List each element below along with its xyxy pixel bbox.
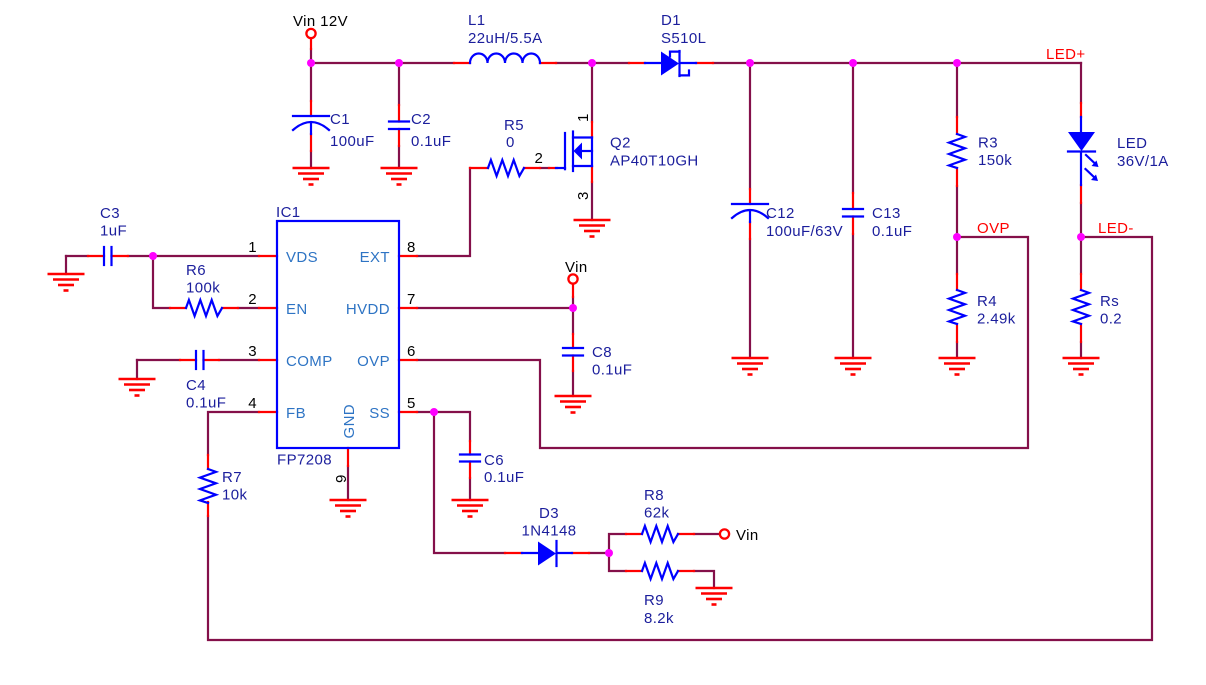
wire LED- node to Rs xyxy=(1080,237,1082,274)
svg-text:1N4148: 1N4148 xyxy=(522,523,577,540)
svg-text:2: 2 xyxy=(535,150,544,167)
pin stub R4 top xyxy=(956,274,958,290)
capacitor C3 xyxy=(104,247,112,265)
capacitor C6 xyxy=(460,455,480,462)
junction R3 rail xyxy=(953,59,961,67)
svg-text:8: 8 xyxy=(407,239,416,256)
svg-text:COMP: COMP xyxy=(286,353,333,370)
svg-text:FP7208: FP7208 xyxy=(277,452,332,469)
wire C2 top xyxy=(398,63,400,105)
LED D2 xyxy=(1068,117,1099,185)
wire Vin12V stem xyxy=(310,49,312,63)
pin stub C13 top xyxy=(852,193,854,209)
svg-text:1: 1 xyxy=(575,113,592,122)
ground C1 xyxy=(293,168,330,185)
pin stub R9 left xyxy=(626,570,642,572)
pin stub IC1 pin 1 xyxy=(259,255,277,257)
wire C12 top xyxy=(749,63,751,189)
wire C1 top xyxy=(310,63,312,101)
wire top rail segment A xyxy=(311,62,454,64)
svg-text:OVP: OVP xyxy=(357,353,390,370)
wire R3 to OVP node xyxy=(956,186,958,237)
wire OVP node to R4 xyxy=(956,237,958,274)
svg-text:R6: R6 xyxy=(186,262,206,279)
svg-text:Vin 12V: Vin 12V xyxy=(293,13,348,30)
wire C8 bottom to ground xyxy=(572,371,574,396)
pin stub C13 bottom xyxy=(852,217,854,235)
wire R8 to Vin terminal xyxy=(694,533,720,535)
ground C8 xyxy=(555,396,592,413)
capacitor C13 xyxy=(843,209,863,217)
pin stub D3 anode xyxy=(505,552,522,554)
resistor R4 xyxy=(949,290,965,324)
svg-text:C12: C12 xyxy=(766,205,795,222)
junction C12 rail xyxy=(746,59,754,67)
wire D3 cathode to node xyxy=(589,552,609,554)
pin stub IC1 pin 7 xyxy=(399,307,417,309)
svg-text:R8: R8 xyxy=(644,487,664,504)
svg-text:C4: C4 xyxy=(186,377,206,394)
pin stub IC1 pin 4 xyxy=(259,411,277,413)
svg-text:36V/1A: 36V/1A xyxy=(1117,153,1169,170)
wire ground to C3 xyxy=(66,255,88,257)
svg-text:Rs: Rs xyxy=(1100,293,1119,310)
svg-text:Vin: Vin xyxy=(736,527,759,544)
IC U1 FP7208 box xyxy=(277,221,399,448)
terminal Vin 12V xyxy=(306,29,315,38)
svg-text:C2: C2 xyxy=(411,111,431,128)
pin stub R6 left xyxy=(170,307,186,309)
ground C6 xyxy=(452,500,489,517)
wire GND pin 9 to ground xyxy=(347,466,349,500)
pin stub IC1 pin 5 xyxy=(399,411,417,413)
pin stub LED anode xyxy=(1080,103,1082,117)
svg-text:150k: 150k xyxy=(978,152,1012,169)
ground Rs xyxy=(1063,358,1100,375)
terminal Vin (HVDD) xyxy=(568,274,577,283)
wire ground to C4 xyxy=(137,359,180,361)
svg-text:D1: D1 xyxy=(661,12,681,29)
wire OVP net to pin 6 xyxy=(417,237,1028,448)
pin stub C3 left xyxy=(88,255,104,257)
wire node up to R8 xyxy=(609,534,626,553)
wire C4 ground stem xyxy=(136,360,138,379)
wire EXT pin 8 to R5 xyxy=(417,168,470,256)
wire C2 bottom to ground xyxy=(398,146,400,168)
pin stub D3 cathode xyxy=(572,552,589,554)
junction C2 rail xyxy=(395,59,403,67)
resistor R3 xyxy=(949,134,965,168)
pin stub Rs top xyxy=(1080,274,1082,290)
pin stub R6 right xyxy=(222,307,238,309)
pin stub C2 bottom xyxy=(398,129,400,146)
svg-text:HVDD: HVDD xyxy=(346,301,390,318)
pin stub R3 bottom xyxy=(956,168,958,186)
svg-text:SS: SS xyxy=(369,405,390,422)
wire SS node down to D3 xyxy=(434,412,505,553)
wire R6 to EN pin 2 xyxy=(238,307,259,309)
pin stub R7 bottom xyxy=(207,502,209,516)
svg-text:OVP: OVP xyxy=(977,220,1010,237)
wire Vin node vertical xyxy=(572,297,574,334)
resistor Rs xyxy=(1073,290,1089,324)
svg-text:LED: LED xyxy=(1117,135,1147,152)
pin stub C2 top xyxy=(398,105,400,122)
pin stub C12 top xyxy=(749,189,751,204)
pin stub C1 top xyxy=(310,101,312,116)
resistor R6 xyxy=(186,300,222,316)
svg-text:R3: R3 xyxy=(978,135,998,152)
svg-text:S510L: S510L xyxy=(661,30,706,47)
svg-text:9: 9 xyxy=(333,474,350,483)
resistor R7 xyxy=(200,469,216,503)
pin stub Vin mid terminal xyxy=(572,284,574,297)
wire HVDD pin 7 to Vin xyxy=(417,307,573,309)
pin stub R9 right xyxy=(678,570,694,572)
pin stub R7 top xyxy=(207,455,209,469)
svg-text:EN: EN xyxy=(286,301,308,318)
junction LED- node xyxy=(1077,233,1085,241)
wire Rs bottom to ground xyxy=(1080,342,1082,358)
svg-text:7: 7 xyxy=(407,291,416,308)
diode D1 (schottky) xyxy=(645,51,696,76)
wire R5 to Q2 gate xyxy=(540,167,549,169)
svg-text:R9: R9 xyxy=(644,592,664,609)
pin stub Rs bottom xyxy=(1080,324,1082,342)
wire C6 bottom to ground xyxy=(469,478,471,500)
svg-text:2.49k: 2.49k xyxy=(977,311,1016,328)
junction C13 rail xyxy=(849,59,857,67)
ground R4 xyxy=(939,358,976,375)
pin stub L1 left xyxy=(454,62,470,64)
svg-text:22uH/5.5A: 22uH/5.5A xyxy=(468,30,542,47)
pin stub IC1 pin 8 xyxy=(399,255,417,257)
svg-text:1uF: 1uF xyxy=(100,223,127,240)
svg-text:R4: R4 xyxy=(977,293,997,310)
ground IC1 pin 9 xyxy=(330,500,367,517)
svg-text:Q2: Q2 xyxy=(610,135,631,152)
svg-text:AP40T10GH: AP40T10GH xyxy=(610,153,699,170)
wire Q2 drain xyxy=(591,63,593,122)
ground C2 xyxy=(381,168,418,185)
pin stub R8 left xyxy=(626,533,642,535)
wire R7 top to FB pin 4 xyxy=(208,412,259,455)
svg-text:C13: C13 xyxy=(872,205,901,222)
pin stub L1 right xyxy=(540,62,556,64)
capacitor C8 xyxy=(563,348,583,356)
svg-text:62k: 62k xyxy=(644,505,669,522)
wire C13 top xyxy=(852,63,854,193)
svg-text:0: 0 xyxy=(506,134,515,151)
capacitor C1 xyxy=(293,116,329,134)
svg-text:10k: 10k xyxy=(222,487,247,504)
pin stub R8 right xyxy=(678,533,694,535)
diode D3 xyxy=(522,541,572,566)
wire R9 to ground xyxy=(694,571,714,588)
pin stub IC1 pin 3 xyxy=(259,359,277,361)
pin stub C4 left xyxy=(180,359,196,361)
ground C13 xyxy=(835,358,872,375)
svg-text:LED-: LED- xyxy=(1098,220,1134,237)
svg-text:0.1uF: 0.1uF xyxy=(872,223,912,240)
junction Vin rail xyxy=(307,59,315,67)
pin stub C6 top xyxy=(469,441,471,455)
pin stub C1 bottom xyxy=(310,134,312,151)
svg-text:C8: C8 xyxy=(592,344,612,361)
svg-text:C6: C6 xyxy=(484,452,504,469)
svg-text:LED+: LED+ xyxy=(1046,46,1086,63)
svg-text:C3: C3 xyxy=(100,205,120,222)
svg-text:D3: D3 xyxy=(539,505,559,522)
svg-text:2: 2 xyxy=(248,291,257,308)
svg-text:IC1: IC1 xyxy=(276,204,301,221)
svg-text:1: 1 xyxy=(248,239,257,256)
svg-text:100uF/63V: 100uF/63V xyxy=(766,223,843,240)
svg-text:0.1uF: 0.1uF xyxy=(592,362,632,379)
ground C12 xyxy=(732,358,769,375)
pin stub Q2 drain xyxy=(591,122,593,137)
wire top rail segment C (to LED+) xyxy=(713,62,1081,64)
pin stub IC1 pin 9 xyxy=(347,448,349,466)
svg-text:GND: GND xyxy=(341,404,358,439)
wire top rail segment B xyxy=(556,62,629,64)
resistor R8 xyxy=(642,526,678,542)
svg-text:3: 3 xyxy=(575,191,592,200)
pin stub C8 top xyxy=(572,334,574,348)
junction SS node xyxy=(430,408,438,416)
svg-text:100uF: 100uF xyxy=(330,133,375,150)
pin stub LED cathode xyxy=(1080,185,1082,203)
pin stub IC1 pin 6 xyxy=(399,359,417,361)
pin stub C6 bottom xyxy=(469,462,471,479)
ground R9 xyxy=(696,588,733,605)
junction Q2 drain rail xyxy=(588,59,596,67)
svg-text:5: 5 xyxy=(407,395,416,412)
ground Q2 source xyxy=(574,220,611,237)
svg-text:100k: 100k xyxy=(186,280,220,297)
pin stub Vin12V terminal xyxy=(310,39,312,50)
junction C3 node xyxy=(149,252,157,260)
pin stub C8 bottom xyxy=(572,356,574,372)
pin stub Q2 source xyxy=(591,167,593,182)
svg-text:3: 3 xyxy=(248,343,257,360)
junction OVP node xyxy=(953,233,961,241)
svg-text:R7: R7 xyxy=(222,469,242,486)
wire R4 bottom to ground xyxy=(956,342,958,358)
pin stub C4 right xyxy=(204,359,220,361)
wire SS pin 5 to C6 xyxy=(417,412,470,441)
svg-text:0.1uF: 0.1uF xyxy=(186,395,226,412)
junction D3 node xyxy=(605,549,613,557)
pin stub R5 right xyxy=(524,167,540,169)
wire LED- net bottom rail to R7 xyxy=(208,237,1152,640)
capacitor C2 xyxy=(389,122,409,130)
wire Q2 source to ground xyxy=(591,182,593,220)
pin stub D1 anode xyxy=(629,62,645,64)
svg-text:VDS: VDS xyxy=(286,249,318,266)
ground C3 left xyxy=(48,274,85,291)
pin stub C12 bottom xyxy=(749,222,751,239)
wire LED branch top xyxy=(1080,63,1082,103)
svg-text:FB: FB xyxy=(286,405,306,422)
pin stub C3 right xyxy=(112,255,129,257)
pin stub D1 cathode xyxy=(696,62,713,64)
svg-text:0.1uF: 0.1uF xyxy=(411,133,451,150)
wire node to R6 xyxy=(153,256,170,308)
junction Vin/HVDD node xyxy=(569,304,577,312)
wire node down to R9 xyxy=(609,553,626,571)
wire R3 top xyxy=(956,63,958,117)
terminal Vin (R8) xyxy=(720,529,729,538)
pin stub R5 left xyxy=(470,167,488,169)
wire LED to LED- node xyxy=(1080,203,1082,237)
svg-text:Vin: Vin xyxy=(565,259,588,276)
wire C1 bottom to ground xyxy=(310,151,312,168)
pin stub R3 top xyxy=(956,117,958,134)
svg-text:8.2k: 8.2k xyxy=(644,610,674,627)
wire C12 bottom to ground xyxy=(749,239,751,358)
wire C3 to VDS pin 1 xyxy=(128,255,259,257)
svg-text:6: 6 xyxy=(407,343,416,360)
wire C3 ground stem xyxy=(65,256,67,274)
svg-text:L1: L1 xyxy=(468,12,486,29)
pin stub Q2 gate xyxy=(549,167,557,169)
transistor Q2 (N-MOSFET) xyxy=(556,132,592,172)
svg-text:R5: R5 xyxy=(504,117,524,134)
svg-text:0.2: 0.2 xyxy=(1100,311,1122,328)
capacitor C4 xyxy=(196,351,204,369)
ground C4 left xyxy=(119,379,156,396)
wire C13 bottom to ground xyxy=(852,234,854,358)
svg-text:4: 4 xyxy=(248,395,257,412)
svg-text:C1: C1 xyxy=(330,111,350,128)
resistor R5 xyxy=(488,160,524,176)
capacitor C12 xyxy=(732,204,768,222)
svg-text:0.1uF: 0.1uF xyxy=(484,469,524,486)
pin stub IC1 pin 2 xyxy=(259,307,277,309)
wire C4 to COMP pin 3 xyxy=(219,359,259,361)
resistor R9 xyxy=(642,563,678,579)
svg-text:EXT: EXT xyxy=(360,249,390,266)
pin stub R4 bottom xyxy=(956,324,958,342)
inductor L1 xyxy=(470,54,540,64)
